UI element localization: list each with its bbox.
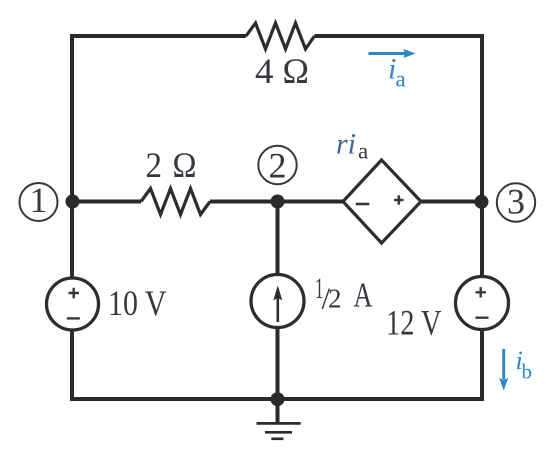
svg-text:Ω: Ω <box>173 145 197 185</box>
svg-text:2: 2 <box>328 284 342 314</box>
node 1 junction dot <box>66 195 80 209</box>
wire current source to bottom rail <box>276 328 280 400</box>
ground bar 1 <box>257 422 301 425</box>
dependent source diamond ri_a <box>343 160 421 243</box>
ground junction dot <box>271 392 285 406</box>
current arrow i_a (blue, top) <box>369 52 406 55</box>
voltage source 12V minus sign <box>476 317 489 319</box>
wire middle rail: diamond right vertex to node3 <box>421 200 482 204</box>
current source arrow head <box>273 286 282 301</box>
voltage source 12V plus sign <box>476 287 486 297</box>
ground bar 2 <box>265 431 292 434</box>
wire top-right run: top rail right of 4ohm resistor + right vertical down to 12V <box>315 36 483 277</box>
voltage source 12V circle <box>456 277 509 330</box>
wire bottom U: below 10V source, bottom rail, below 12V source <box>72 330 482 400</box>
resistor 2 ohm zigzag <box>141 189 210 215</box>
svg-text:12 V: 12 V <box>386 303 442 343</box>
node 2 junction dot <box>271 195 285 209</box>
current source 1/2A circle <box>251 275 304 328</box>
svg-text:2: 2 <box>146 145 163 185</box>
voltage source 10V plus sign <box>69 288 79 298</box>
svg-text:3: 3 <box>507 182 525 222</box>
svg-text:Ω: Ω <box>283 51 310 91</box>
voltage source 10V minus sign <box>67 317 80 319</box>
svg-text:b: b <box>522 360 533 384</box>
voltage source 10V circle <box>47 278 99 330</box>
dependent source minus sign <box>356 203 370 206</box>
current source arrow shaft <box>276 289 279 322</box>
svg-text:A: A <box>354 276 374 315</box>
node 3 label circle <box>497 183 535 221</box>
ground bar 3 <box>271 437 283 440</box>
wire node2 drop to current source <box>276 202 280 275</box>
node 2 label circle <box>258 146 296 184</box>
svg-text:a: a <box>358 139 368 164</box>
wire middle rail: node1 to 2ohm resistor <box>72 200 141 204</box>
svg-text:a: a <box>396 67 406 92</box>
node 3 junction dot <box>475 195 489 209</box>
wire middle rail: 2ohm resistor to diamond left vertex <box>210 200 343 204</box>
svg-text:1: 1 <box>30 180 48 220</box>
ground stub wire <box>276 399 280 423</box>
dependent source plus sign <box>394 195 404 205</box>
current arrow i_b (blue, right) <box>502 349 505 379</box>
svg-text:4: 4 <box>255 51 274 91</box>
node 1 label circle <box>20 183 58 221</box>
svg-text:2: 2 <box>269 146 287 186</box>
wire top-left run: left vertical + top rail left of 4ohm resistor <box>72 36 246 278</box>
svg-text:ri: ri <box>336 128 356 161</box>
resistor 4 ohm zigzag <box>246 23 315 49</box>
svg-text:10 V: 10 V <box>108 283 167 323</box>
